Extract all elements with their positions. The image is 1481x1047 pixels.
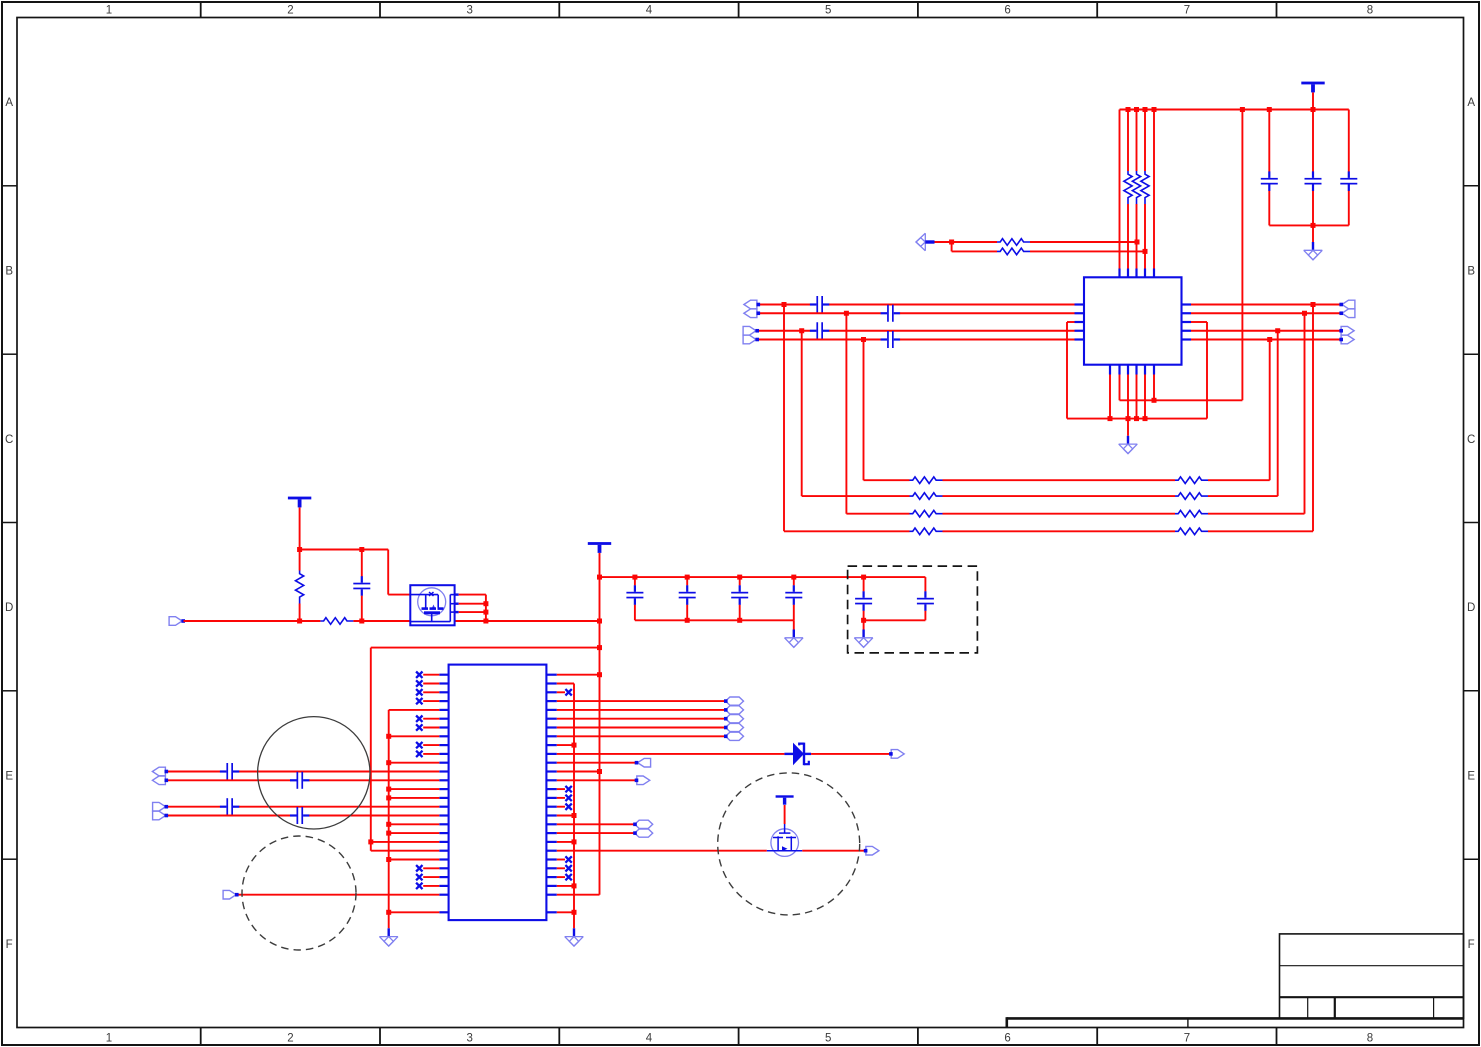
svg-text:B: B bbox=[1467, 266, 1475, 278]
svg-text:1: 1 bbox=[106, 1033, 112, 1045]
svg-text:2: 2 bbox=[287, 5, 293, 17]
svg-text:1: 1 bbox=[106, 5, 112, 17]
svg-text:3: 3 bbox=[466, 5, 472, 17]
svg-text:4: 4 bbox=[646, 1033, 653, 1045]
svg-text:F: F bbox=[1468, 939, 1475, 951]
svg-text:C: C bbox=[5, 434, 13, 446]
svg-text:7: 7 bbox=[1184, 1033, 1190, 1045]
svg-text:E: E bbox=[5, 771, 13, 783]
svg-text:8: 8 bbox=[1367, 1033, 1373, 1045]
svg-text:A: A bbox=[1467, 97, 1475, 109]
svg-text:7: 7 bbox=[1184, 5, 1190, 17]
svg-text:D: D bbox=[1467, 602, 1475, 614]
svg-text:B: B bbox=[5, 266, 13, 278]
svg-text:5: 5 bbox=[825, 5, 831, 17]
svg-text:8: 8 bbox=[1367, 5, 1373, 17]
svg-text:A: A bbox=[5, 97, 13, 109]
svg-text:6: 6 bbox=[1004, 5, 1010, 17]
svg-text:3: 3 bbox=[466, 1033, 472, 1045]
svg-text:2: 2 bbox=[287, 1033, 293, 1045]
svg-text:C: C bbox=[1467, 434, 1475, 446]
svg-text:E: E bbox=[1467, 771, 1475, 783]
svg-text:F: F bbox=[6, 939, 13, 951]
svg-text:6: 6 bbox=[1004, 1033, 1010, 1045]
svg-text:D: D bbox=[5, 602, 13, 614]
svg-text:4: 4 bbox=[646, 5, 653, 17]
svg-text:5: 5 bbox=[825, 1033, 831, 1045]
